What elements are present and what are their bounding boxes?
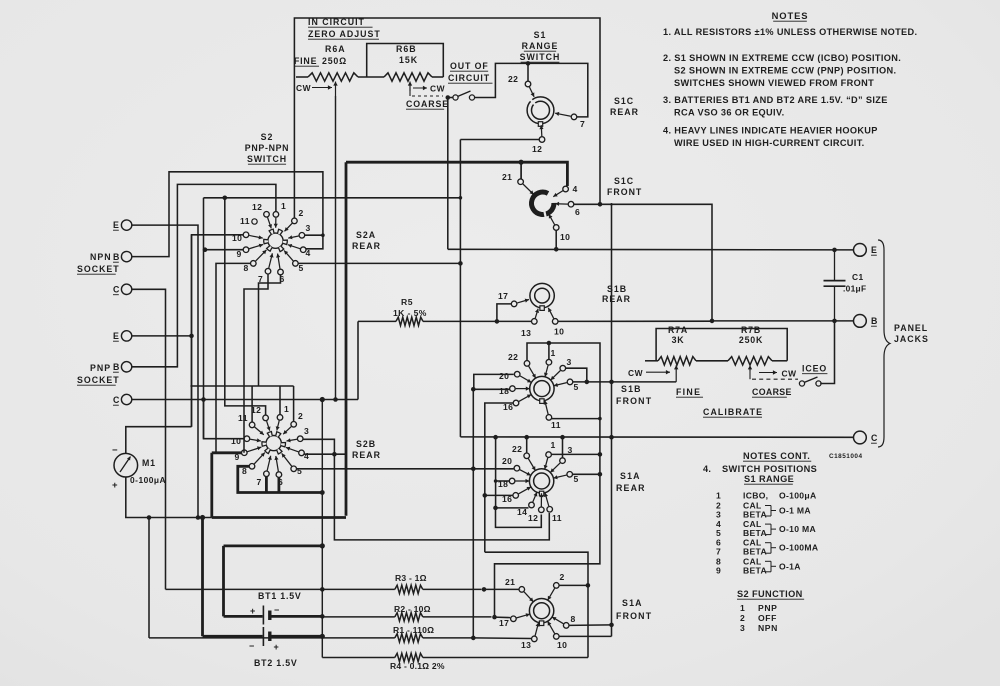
svg-text:REAR: REAR xyxy=(352,450,381,460)
svg-text:S1 RANGE: S1 RANGE xyxy=(744,474,794,484)
pin 3 S2A rear xyxy=(299,233,305,239)
pin 16 S1A rear xyxy=(513,493,519,499)
heavy wire S1C riser xyxy=(345,162,348,516)
svg-text:4: 4 xyxy=(573,184,578,194)
wire pin17 drop xyxy=(497,304,511,322)
junction R1 right xyxy=(471,636,476,641)
pin 9 S2A rear xyxy=(243,247,249,253)
svg-text:B: B xyxy=(113,252,120,262)
pin 1 S2B rear xyxy=(277,415,283,421)
svg-text:11: 11 xyxy=(552,513,562,523)
pin 5 S1B front xyxy=(567,379,573,385)
resistor R3 xyxy=(166,588,395,590)
svg-text:SOCKET: SOCKET xyxy=(77,375,120,385)
svg-text:R7B: R7B xyxy=(741,325,761,335)
wire to pin22 xyxy=(527,63,529,81)
svg-text:S2B: S2B xyxy=(356,439,376,449)
svg-text:1: 1 xyxy=(740,603,745,613)
junction x611 pin8 xyxy=(609,623,614,628)
meter M1 xyxy=(114,453,138,477)
svg-text:FRONT: FRONT xyxy=(616,396,652,406)
wire x611 vertical xyxy=(611,204,613,636)
svg-text:CALIBRATE: CALIBRATE xyxy=(703,407,763,417)
svg-text:.01μF: .01μF xyxy=(843,284,866,294)
pin 2 S1A front xyxy=(554,583,560,589)
pin 2 S2A rear xyxy=(292,218,298,224)
R6A left stub xyxy=(296,76,308,78)
potentiometer R6B xyxy=(384,73,432,81)
svg-text:5: 5 xyxy=(297,466,302,476)
junction BT2-R4 riser xyxy=(320,634,325,639)
svg-text:18: 18 xyxy=(499,386,509,396)
junction pin21 xyxy=(519,160,524,165)
svg-text:2: 2 xyxy=(299,208,304,218)
wire R1 to pin13 S1A xyxy=(473,637,531,640)
svg-text:10: 10 xyxy=(560,232,570,242)
svg-text:NPN: NPN xyxy=(90,252,112,262)
wire S2B pin12 xyxy=(225,198,266,415)
rotary switch S1A front xyxy=(529,599,553,623)
svg-text:10: 10 xyxy=(231,436,241,446)
wire R7A wiper to fine bus xyxy=(675,378,677,382)
pin 14 S1A rear xyxy=(529,502,535,508)
svg-text:E: E xyxy=(113,331,119,341)
svg-text:PNP: PNP xyxy=(90,363,111,373)
wire pot loop xyxy=(656,329,787,361)
wire switch to S1C xyxy=(475,63,588,117)
wire bus198 xyxy=(204,197,461,199)
wire BT1 right to R2 xyxy=(272,615,323,618)
wire pnp C xyxy=(132,399,358,401)
pin 6 S2A rear xyxy=(278,269,284,275)
svg-text:OFF: OFF xyxy=(758,613,777,623)
svg-text:250Ω: 250Ω xyxy=(322,56,347,66)
svg-text:S1B: S1B xyxy=(621,384,642,394)
pin 8 S1A front xyxy=(563,623,569,629)
rotary switch S1C rear xyxy=(527,97,554,124)
svg-text:22: 22 xyxy=(508,352,518,362)
svg-text:RCA VSO 36 OR EQUIV.: RCA VSO 36 OR EQUIV. xyxy=(674,108,784,118)
junction R3 right xyxy=(482,587,487,592)
wire meter plus xyxy=(126,477,212,518)
wire pnp B xyxy=(132,184,276,366)
svg-text:22: 22 xyxy=(512,444,522,454)
wire pin3 riser xyxy=(562,437,564,458)
pin 6 S1C front xyxy=(568,201,574,207)
svg-text:2: 2 xyxy=(740,613,745,623)
svg-text:S2: S2 xyxy=(261,132,274,142)
svg-text:O-100μA: O-100μA xyxy=(779,491,816,501)
wire jackE bus xyxy=(448,248,854,251)
svg-text:S2 FUNCTION: S2 FUNCTION xyxy=(737,589,803,599)
svg-text:10: 10 xyxy=(554,327,564,337)
svg-text:REAR: REAR xyxy=(352,241,381,251)
wire npn E xyxy=(132,225,198,517)
junction riser-heavybus xyxy=(320,543,325,548)
frame wire top xyxy=(294,18,600,219)
svg-text:11: 11 xyxy=(240,216,250,226)
potentiometer R7A xyxy=(645,360,658,362)
wire pin22-1-11 loop xyxy=(527,343,600,419)
svg-text:JACKS: JACKS xyxy=(894,334,929,344)
pin 2 S2B rear xyxy=(291,422,297,428)
junction R1 riser xyxy=(147,515,152,520)
junction C1 bottom xyxy=(832,319,837,324)
wire R4 to pin2 S1A xyxy=(560,585,589,657)
svg-text:7: 7 xyxy=(257,477,262,487)
svg-text:WIRE USED IN HIGH-CURRENT CIRC: WIRE USED IN HIGH-CURRENT CIRCUIT. xyxy=(674,138,865,148)
svg-text:3K: 3K xyxy=(672,335,685,345)
svg-text:13: 13 xyxy=(521,328,531,338)
pin 4 S2A rear xyxy=(300,247,306,253)
junction pnp C riser xyxy=(201,397,206,402)
resistor R1 xyxy=(149,637,395,639)
svg-text:3: 3 xyxy=(740,623,745,633)
panel jack E xyxy=(854,244,867,257)
svg-text:C: C xyxy=(113,285,120,295)
svg-text:21: 21 xyxy=(505,577,515,587)
svg-text:3: 3 xyxy=(304,426,309,436)
pin 3 S1A rear xyxy=(560,458,566,464)
pin 12 S1A rear xyxy=(539,507,545,513)
pin 17 S1B rear xyxy=(511,301,517,307)
pin 8 S2B rear xyxy=(249,464,255,470)
svg-text:C: C xyxy=(871,433,878,443)
wire S2A pin7 xyxy=(244,274,268,453)
svg-text:21: 21 xyxy=(502,172,512,182)
svg-text:REAR: REAR xyxy=(616,483,646,493)
pin 6 S2B rear xyxy=(276,472,282,478)
svg-text:CIRCUIT: CIRCUIT xyxy=(448,73,490,83)
pin 3 S2B rear xyxy=(297,436,303,442)
svg-text:10: 10 xyxy=(557,640,567,650)
svg-text:−: − xyxy=(274,605,280,615)
svg-text:1: 1 xyxy=(551,348,556,358)
wire S2A pin3 tap xyxy=(305,234,323,236)
pin 7 S2A rear xyxy=(265,268,271,274)
svg-text:8: 8 xyxy=(244,263,249,273)
wire npn C xyxy=(132,289,166,589)
pin 21 S1A front xyxy=(519,587,525,593)
svg-text:O-10 MA: O-10 MA xyxy=(779,524,816,534)
wire pin14-pin12 loop xyxy=(496,508,542,528)
wire pin12 to S2B pin12 bus xyxy=(460,139,539,141)
svg-text:9: 9 xyxy=(237,249,242,259)
junction pin3-pin4 cross xyxy=(332,452,337,457)
svg-text:BT1 1.5V: BT1 1.5V xyxy=(258,591,302,601)
wire jackB bus xyxy=(712,320,853,322)
pin 10 S2A rear xyxy=(243,232,249,238)
svg-text:S1A: S1A xyxy=(620,471,641,481)
wire R6B top loop xyxy=(367,44,444,78)
svg-text:3. BATTERIES BT1 AND BT2 ARE 1: 3. BATTERIES BT1 AND BT2 ARE 1.5V. “D” S… xyxy=(663,95,888,105)
wire S2B pin2 riser xyxy=(293,386,295,422)
svg-text:0-100μA: 0-100μA xyxy=(130,475,166,485)
rotary switch S1B front xyxy=(530,376,554,400)
wire pnp E xyxy=(132,335,192,337)
brace panel jacks xyxy=(878,240,890,447)
R7A wiper xyxy=(675,365,677,378)
wire pin22 riser xyxy=(526,437,528,453)
wire S2A pin6 xyxy=(259,275,281,386)
svg-text:BETA: BETA xyxy=(743,565,767,575)
heavy wire meterbus to S2B pin9 xyxy=(210,453,213,518)
svg-text:O-100MA: O-100MA xyxy=(779,543,818,553)
svg-text:NOTES: NOTES xyxy=(772,10,809,21)
svg-text:7: 7 xyxy=(580,119,585,129)
svg-text:R1 - 110Ω: R1 - 110Ω xyxy=(393,625,434,635)
svg-text:CW: CW xyxy=(296,83,311,93)
wire pin14 xyxy=(496,507,529,509)
wire bus437 to jackC xyxy=(460,436,853,438)
pin 22 S1C rear xyxy=(525,81,531,87)
wire pin10 to jackB bus xyxy=(558,320,712,322)
wire S2B pin3 xyxy=(303,439,549,540)
wire S2B pin4 xyxy=(304,453,346,455)
svg-text:S1: S1 xyxy=(534,30,547,40)
pin 4 S2B rear xyxy=(299,450,305,456)
pin 7 S2B rear xyxy=(264,471,270,477)
wire pin10 drop xyxy=(555,231,557,250)
junction C1 top xyxy=(832,248,837,253)
svg-text:3: 3 xyxy=(567,357,572,367)
rotary switch S1C front xyxy=(532,192,554,214)
svg-text:11: 11 xyxy=(238,413,248,423)
svg-text:5: 5 xyxy=(716,528,721,538)
svg-text:1: 1 xyxy=(551,440,556,450)
svg-text:8: 8 xyxy=(571,614,576,624)
wire pin8 xyxy=(569,624,612,627)
junction pin18 riser bus437 xyxy=(493,435,498,440)
heavy wire S2B pin6 stub xyxy=(277,477,280,492)
svg-text:S1A: S1A xyxy=(622,598,643,608)
wire pin18 riser xyxy=(472,389,474,638)
svg-text:9: 9 xyxy=(716,565,721,575)
pin 5 S1A rear xyxy=(567,472,573,478)
pin 12 S2A rear xyxy=(264,212,270,218)
svg-text:5: 5 xyxy=(574,474,579,484)
wire pin6 bus to jackB riser xyxy=(574,204,712,321)
heavy wire BT1 riser xyxy=(222,546,225,617)
svg-text:S2A: S2A xyxy=(356,230,376,240)
junction x611 pin6bus xyxy=(610,203,613,206)
pin 18 S1A rear xyxy=(509,478,515,484)
svg-text:PNP-NPN: PNP-NPN xyxy=(245,143,290,153)
wire npn B xyxy=(132,172,323,257)
pin 18 S1B front xyxy=(510,386,516,392)
svg-text:5: 5 xyxy=(299,263,304,273)
svg-text:1. ALL RESISTORS ±1% UNLESS OT: 1. ALL RESISTORS ±1% UNLESS OTHERWISE NO… xyxy=(663,27,917,37)
svg-text:CW: CW xyxy=(782,369,797,379)
heavy wire S2B pin7 stub xyxy=(265,477,268,493)
svg-text:PNP: PNP xyxy=(758,603,777,613)
svg-text:SOCKET: SOCKET xyxy=(77,264,120,274)
pin 1 S1B front xyxy=(546,359,552,365)
svg-text:SWITCHES SHOWN VIEWED FROM FRO: SWITCHES SHOWN VIEWED FROM FRONT xyxy=(674,78,874,88)
potentiometer R7B xyxy=(728,357,772,365)
junction S2B12 on bus198 xyxy=(223,196,228,201)
junction npnE on meter bus xyxy=(196,515,201,520)
svg-text:SWITCH: SWITCH xyxy=(520,52,561,62)
panel jack B xyxy=(854,315,867,328)
svg-text:M1: M1 xyxy=(142,458,156,468)
wire R1 left riser xyxy=(148,518,150,638)
svg-text:S1B: S1B xyxy=(607,284,627,294)
svg-text:R4 - 0.1Ω 2%: R4 - 0.1Ω 2% xyxy=(390,661,445,671)
svg-text:ICBO,: ICBO, xyxy=(743,491,768,501)
junction pin5 on riser xyxy=(598,472,603,477)
wire S2B pin11 riser xyxy=(251,386,253,422)
svg-text:BETA: BETA xyxy=(743,528,767,538)
svg-text:5: 5 xyxy=(574,382,579,392)
svg-text:2: 2 xyxy=(298,411,303,421)
svg-text:12: 12 xyxy=(528,513,538,523)
wire fine bus xyxy=(573,381,676,383)
wire BT2 left xyxy=(203,635,263,638)
wire S2B pin5 to S1A pin20 xyxy=(297,468,514,470)
svg-text:15K: 15K xyxy=(399,55,418,65)
pin 12 S2B rear xyxy=(263,415,269,421)
svg-text:R2 - 10Ω: R2 - 10Ω xyxy=(394,604,431,614)
svg-text:2: 2 xyxy=(560,572,565,582)
rotary switch S1B rear xyxy=(530,283,554,307)
svg-text:S1C: S1C xyxy=(614,96,634,106)
svg-text:CW: CW xyxy=(430,84,445,94)
heavy wire S2B pin9 xyxy=(212,451,242,454)
svg-text:1: 1 xyxy=(284,404,289,414)
heavy wire meter bus xyxy=(212,516,346,519)
mech link R7B-iceo xyxy=(749,371,751,379)
svg-text:1: 1 xyxy=(281,201,286,211)
wire R2 to pin17 S1A xyxy=(495,616,511,619)
svg-text:+: + xyxy=(274,642,280,652)
svg-text:17: 17 xyxy=(498,291,508,301)
pin 13 S1A front xyxy=(532,636,538,642)
pin 11 S1B front xyxy=(546,415,552,421)
pin 20 S1B front xyxy=(514,371,520,377)
wire S2A pin5 bus xyxy=(298,262,460,264)
svg-text:O-1A: O-1A xyxy=(779,561,801,571)
wire pin20 xyxy=(474,374,514,389)
svg-text:12: 12 xyxy=(252,202,262,212)
junction switch-jackE riser xyxy=(446,95,451,100)
wire pin3 xyxy=(566,368,587,382)
resistor R2 xyxy=(322,616,395,618)
wire pin16 xyxy=(485,403,513,495)
pin 10 S1B rear xyxy=(552,319,558,325)
switch iceo xyxy=(799,381,804,386)
wire BT2 right xyxy=(272,635,322,638)
pin 11 S2B rear xyxy=(249,422,255,428)
svg-text:FRONT: FRONT xyxy=(616,611,652,621)
mech link R6B-coarse xyxy=(409,91,411,96)
svg-text:+: + xyxy=(112,480,118,491)
wire R5 left riser xyxy=(357,321,359,399)
pin 1 S2A rear xyxy=(273,212,279,218)
svg-text:ICEO: ICEO xyxy=(802,364,827,374)
svg-text:FRONT: FRONT xyxy=(607,187,642,197)
svg-text:BT2 1.5V: BT2 1.5V xyxy=(254,658,298,668)
svg-text:4.: 4. xyxy=(703,464,711,474)
wire S2B pin1 riser xyxy=(279,386,281,415)
wire iceo to jackB bus xyxy=(820,321,834,384)
svg-text:4: 4 xyxy=(304,451,309,461)
pin 17 S1A front xyxy=(511,616,517,622)
pin 10 S1A front xyxy=(554,634,560,640)
svg-text:S1C: S1C xyxy=(614,176,634,186)
svg-text:C1: C1 xyxy=(852,272,864,282)
pin 8 S2A rear xyxy=(251,261,257,267)
svg-text:COARSE: COARSE xyxy=(406,99,449,109)
wire pin1 riser xyxy=(548,343,550,360)
heavy wire battery bus xyxy=(224,545,323,548)
R7B wiper xyxy=(749,365,751,371)
wire riser to jackE bus xyxy=(447,98,449,250)
pin 7 S1C rear xyxy=(571,114,577,120)
svg-text:O-1 MA: O-1 MA xyxy=(779,506,811,516)
pin 12 S1C rear xyxy=(539,137,545,143)
svg-text:C: C xyxy=(113,395,120,405)
R6A wiper xyxy=(335,82,337,97)
svg-text:REAR: REAR xyxy=(610,107,639,117)
junction pnp E riser xyxy=(189,334,194,339)
wire pin16 chain bus xyxy=(485,552,588,585)
junction jackB riser xyxy=(710,319,715,324)
wire R6A-R6B link xyxy=(358,76,384,78)
svg-text:COARSE: COARSE xyxy=(752,387,792,397)
pin 5 S2A rear xyxy=(293,261,299,267)
pin 20 S1A rear xyxy=(514,465,520,471)
pin 11 S1A rear xyxy=(547,507,553,513)
pin 10 S2B rear xyxy=(244,436,250,442)
wire S2A pin9 xyxy=(205,249,243,251)
wire pin16 S1Arear xyxy=(485,494,513,496)
junction pin2 corner xyxy=(586,583,591,588)
svg-text:3: 3 xyxy=(568,445,573,455)
rotary switch S1A rear xyxy=(529,469,553,493)
rotary switch S2A rear xyxy=(268,233,283,248)
wire BT1 left xyxy=(224,615,263,618)
wire jackC bus junctions xyxy=(609,435,614,440)
svg-text:R6A: R6A xyxy=(325,44,346,54)
heavy wire pin21-pin4 bus xyxy=(346,162,567,186)
pin 22 S1A rear xyxy=(524,453,530,459)
junction pin1 bus xyxy=(547,341,552,346)
svg-text:C1851004: C1851004 xyxy=(829,453,863,460)
pin 9 S2B rear xyxy=(242,450,248,456)
svg-text:−: − xyxy=(112,445,118,456)
wire bus386 xyxy=(190,385,293,387)
svg-text:R5: R5 xyxy=(401,297,413,307)
svg-text:20: 20 xyxy=(502,456,512,466)
potentiometer R6A xyxy=(308,73,358,81)
R6B wiper xyxy=(409,82,411,92)
svg-text:R7A: R7A xyxy=(668,325,688,335)
junction pin3 on fine bus xyxy=(585,380,590,385)
wire x460 vertical xyxy=(459,140,461,437)
junction R2 riser xyxy=(320,614,325,619)
svg-text:1: 1 xyxy=(716,491,721,501)
wire pin5 xyxy=(573,473,600,475)
pin 1 S1A rear xyxy=(546,452,552,458)
svg-text:NOTES CONT.: NOTES CONT. xyxy=(743,451,810,461)
svg-text:3: 3 xyxy=(716,510,721,520)
svg-text:SWITCH POSITIONS: SWITCH POSITIONS xyxy=(722,464,817,474)
wire pin18 S1Arear xyxy=(496,480,510,482)
svg-text:R6B: R6B xyxy=(396,44,417,54)
pin 13 S1B rear xyxy=(532,319,538,325)
svg-text:4: 4 xyxy=(306,248,311,258)
